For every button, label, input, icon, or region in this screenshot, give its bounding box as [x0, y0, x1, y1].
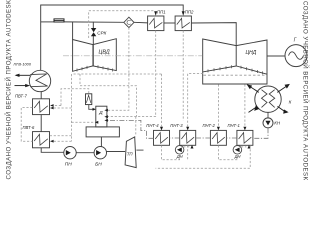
separator diamond C	[124, 17, 134, 27]
wire: vent box to deaerator	[89, 105, 93, 110]
flow restrictor (dark component)	[54, 18, 65, 22]
dashed: steam to PP1	[89, 11, 154, 38]
extraction and drain dashed network	[21, 11, 250, 169]
svg-text:ПНТ-2: ПНТ-2	[203, 123, 216, 128]
main condensate line through LP heaters	[107, 120, 268, 138]
deaerator D	[86, 106, 119, 137]
generator G	[285, 45, 307, 67]
svg-text:ПП1: ПП1	[157, 9, 166, 14]
HP heater PVT-6	[33, 132, 50, 148]
wire: admission through SRK valve	[92, 22, 94, 28]
svg-text:ПНТ-4: ПНТ-4	[146, 123, 159, 128]
dashed: PNT-4 drain loop to DN1	[162, 145, 180, 160]
dashed: extraction to PNT-1	[244, 84, 246, 126]
svg-text:ЦВД: ЦВД	[99, 49, 110, 55]
svg-text:ЦНД: ЦНД	[246, 50, 257, 56]
dashed: CVD exhaust header	[74, 73, 162, 75]
svg-text:СРК: СРК	[97, 31, 106, 36]
HP cylinder CVD	[73, 39, 117, 72]
svg-text:БН: БН	[95, 162, 102, 168]
dashed: extraction to PNT-2	[217, 84, 219, 126]
svg-text:К: К	[289, 100, 292, 105]
wire between pumps	[76, 152, 94, 154]
separator letter C	[127, 20, 131, 24]
feed pump PN	[64, 147, 76, 159]
dashed: PP2 drain to deaerator	[182, 31, 184, 121]
LP heater PNT-3	[180, 130, 196, 145]
svg-text:ПНТ-3: ПНТ-3	[170, 123, 183, 128]
wire: branch down to HP turbine left	[72, 22, 74, 40]
svg-text:ПН: ПН	[65, 162, 72, 168]
steam generator PGV circle	[29, 70, 50, 91]
wire: deaerator downcomer	[100, 137, 102, 147]
deaerator inlet arrows	[104, 109, 108, 112]
vent cooler small box	[86, 94, 92, 105]
LP heater PNT-4	[154, 130, 170, 145]
dashed: steam branch down to turbo-drive TP	[135, 117, 137, 137]
turbo drive TP	[125, 137, 136, 168]
svg-text:СОЗДАНО УЧЕБНОЙ ВЕРСИЕЙ ПРОДУК: СОЗДАНО УЧЕБНОЙ ВЕРСИЕЙ ПРОДУКТА AUTODES…	[302, 1, 310, 180]
primary coolant arrows	[15, 75, 31, 85]
dashed: separator drain to deaerator	[108, 28, 129, 111]
svg-text:ПНТ-1: ПНТ-1	[228, 123, 240, 128]
drain pump DN2	[233, 146, 242, 155]
svg-text:ПГВ-1000: ПГВ-1000	[14, 61, 32, 66]
svg-text:ТП: ТП	[127, 152, 134, 157]
dashed: PP1 drain to deaerator	[108, 31, 156, 117]
dashed: CVD exhaust branch to deaerator	[80, 74, 137, 117]
dashed: PNT-1 drain down	[156, 145, 251, 168]
LP cylinder CND	[203, 39, 267, 84]
HP heater PVT-7	[33, 99, 50, 115]
wire: main horizontal line y=22	[41, 21, 54, 23]
wire: shaft BN to TP	[107, 151, 126, 153]
reheater PP1	[148, 16, 164, 31]
shaft to generator	[267, 55, 285, 57]
CVD stage ticks	[77, 65, 113, 71]
svg-text:СОЗДАНО УЧЕБНОЙ ВЕРСИЕЙ ПРОДУК: СОЗДАНО УЧЕБНОЙ ВЕРСИЕЙ ПРОДУКТА AUTODES…	[4, 0, 12, 180]
wire: TP shaft stub	[136, 149, 143, 151]
svg-text:Д: Д	[98, 110, 103, 116]
condenser K	[255, 86, 281, 112]
reheater PP2	[175, 16, 191, 31]
dashed: extraction to PNT-3	[188, 74, 203, 127]
arrows into HP heaters	[50, 104, 54, 107]
feedwater riser through HP heaters	[41, 92, 64, 153]
arrow DN2 discharge into PNT-1	[241, 146, 246, 148]
LP heater PNT-1	[237, 130, 253, 145]
wire: condenser to KN	[267, 112, 269, 118]
valve SRK	[91, 28, 96, 36]
booster pump BN	[94, 147, 106, 159]
arrow into PP1 top	[154, 11, 157, 16]
dashed: PNT-2 drain loop to DN2	[218, 145, 237, 160]
svg-text:ПВТ-7: ПВТ-7	[15, 93, 27, 98]
arrow into PP2 top	[182, 11, 185, 16]
svg-text:ПП2: ПП2	[185, 9, 194, 14]
wire: main steam riser from steam generator	[41, 5, 184, 70]
drain pump DN1	[175, 146, 184, 155]
arrow DN1 discharge into PNT-3	[183, 146, 189, 148]
svg-text:ПВТ-6: ПВТ-6	[23, 125, 35, 130]
dashed: HP heater cascade left	[21, 108, 32, 142]
svg-text:КН: КН	[274, 120, 281, 125]
dashed: extraction to PNT-4	[161, 74, 163, 127]
condenser arrows	[249, 86, 287, 113]
LP heater PNT-2	[210, 130, 226, 145]
CND stage ticks	[208, 65, 263, 74]
dashed: vent line to vent cooler and PVT-7 upper entry	[61, 89, 89, 106]
condensate pump KN	[263, 118, 273, 128]
dashed: left extraction riser	[71, 74, 73, 141]
shaft centerline	[63, 55, 203, 57]
